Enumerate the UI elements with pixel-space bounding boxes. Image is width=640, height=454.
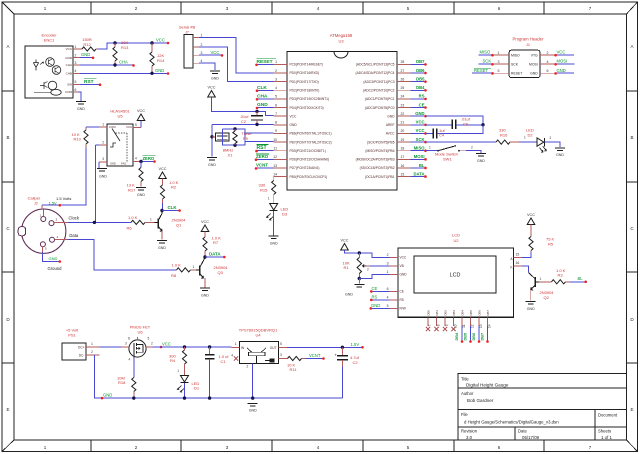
svg-text:5: 5 (498, 69, 500, 73)
svg-text:+: + (334, 352, 337, 357)
svg-text:Q2: Q2 (544, 295, 550, 300)
svg-text:U5: U5 (117, 114, 123, 119)
svg-text:DB6: DB6 (478, 310, 482, 316)
node ZERO junction (139, 161, 154, 163)
wire R16 to LED D2 (519, 141, 537, 143)
IC U5 pin2 (99, 144, 107, 146)
resistor R13 (114, 43, 116, 47)
wire J7 pin2 to U3 TXD (199, 47, 274, 82)
net label SCK at J1 pin3 (479, 63, 494, 65)
connector J2 pin 4 (50, 237, 55, 242)
svg-text:2: 2 (550, 136, 552, 140)
svg-text:1.5V: 1.5V (351, 342, 360, 347)
svg-text:VCC: VCC (137, 109, 145, 113)
IC U5 body (107, 124, 133, 166)
resistor R2 (162, 179, 164, 186)
node crystal loop bottom (233, 144, 236, 147)
svg-text:DB6: DB6 (416, 68, 425, 73)
svg-text:8: 8 (275, 121, 277, 125)
wire encoder GND pin2 (80, 57, 93, 59)
microcontroller U3 left pins 1-14 (274, 63, 287, 65)
potentiometer R1 (358, 253, 360, 258)
svg-text:GND: GND (345, 292, 353, 296)
svg-text:VCC: VCC (400, 256, 407, 260)
svg-text:Caliper: Caliper (28, 196, 41, 201)
svg-text:DATA: DATA (209, 251, 221, 256)
svg-text:VCC: VCC (527, 213, 535, 217)
svg-text:GND: GND (557, 68, 566, 73)
net labels on U3 right pins (410, 63, 425, 65)
wire LCD pin K to Q2 collector (522, 266, 529, 273)
svg-text:2: 2 (275, 69, 277, 73)
wire encoder pin6 to ground (78, 92, 81, 101)
node bypass cap junction (481, 123, 484, 126)
svg-text:SW: SW (67, 83, 72, 87)
svg-text:1: 1 (177, 369, 179, 373)
svg-text:GND: GND (387, 114, 395, 118)
regulator U4 pin1 (232, 346, 240, 348)
svg-text:1: 1 (201, 33, 203, 37)
svg-text:GND: GND (249, 409, 257, 413)
resistor R6 (131, 220, 145, 224)
svg-text:3.0: 3.0 (466, 435, 473, 440)
power VCC symbol R7 (201, 225, 209, 232)
wire U3 pin22 GND to bypass caps (426, 116, 484, 125)
svg-text:17: 17 (401, 155, 405, 159)
frame corner bevels (2, 2, 14, 14)
svg-text:RST: RST (257, 145, 267, 151)
svg-text:GND: GND (257, 102, 268, 108)
wire encoder CHB pin4 (80, 72, 168, 74)
resistor R16 (496, 140, 510, 144)
svg-text:21: 21 (401, 121, 405, 125)
svg-text:CLK: CLK (168, 205, 178, 210)
wire SW1 to ground (466, 151, 481, 153)
ground J7 pin4 (210, 70, 220, 72)
resistor R17 (140, 162, 142, 168)
svg-text:1: 1 (387, 270, 389, 274)
svg-text:GND: GND (208, 163, 216, 167)
svg-text:VCC: VCC (156, 38, 165, 43)
svg-text:BL: BL (578, 276, 584, 281)
svg-text:4: 4 (135, 157, 137, 161)
svg-text:2: 2 (247, 364, 249, 368)
svg-text:DB4: DB4 (455, 332, 459, 340)
svg-text:Document: Document (598, 413, 618, 418)
node VCC junction capacitor C2 (255, 110, 258, 113)
svg-text:6: 6 (547, 69, 549, 73)
svg-text:A: A (630, 44, 633, 49)
svg-text:8: 8 (437, 324, 441, 326)
svg-text:R17: R17 (128, 187, 136, 192)
wires LCD data pins DB4-DB7 (461, 326, 463, 342)
wire LED D3 to ground (273, 211, 275, 235)
wire R2 to CLK node (162, 203, 164, 211)
svg-text:10: 10 (273, 138, 277, 142)
node CHA junction R13 (113, 63, 116, 66)
svg-text:(SS/OC1B/PCINT2)PB2: (SS/OC1B/PCINT2)PB2 (360, 166, 395, 170)
svg-text:12: 12 (471, 324, 475, 328)
node C2 output junction (341, 346, 344, 349)
wire PS1 to Q4 PMOS (100, 346, 122, 348)
LCD U2 bottom pins (427, 317, 429, 326)
svg-text:1: 1 (429, 146, 431, 150)
node R18 ground junction (132, 396, 135, 399)
wire Clock from caliper (68, 221, 131, 223)
svg-text:Program Header: Program Header (513, 37, 545, 42)
ground R17 (136, 187, 146, 189)
svg-text:VB: VB (400, 264, 404, 268)
svg-text:R16: R16 (500, 132, 508, 137)
svg-text:4: 4 (129, 358, 131, 362)
svg-text:R/W: R/W (400, 307, 406, 311)
resistor R10 (85, 127, 87, 130)
svg-text:GND: GND (371, 303, 380, 308)
svg-text:(OC1A/PCINT1)PB1: (OC1A/PCINT1)PB1 (365, 175, 395, 179)
svg-text:Digital Height Gauge: Digital Height Gauge (466, 383, 509, 388)
node DATA junction (203, 255, 206, 258)
wire R5 to LCD pin A (522, 252, 531, 257)
svg-text:R18: R18 (118, 380, 126, 385)
svg-text:MISO: MISO (480, 50, 491, 55)
net label VCNT at U3 pin13 (256, 167, 274, 169)
svg-text:GND: GND (49, 256, 58, 261)
net label MISO at J1 pin1 (479, 54, 494, 56)
svg-text:B: B (630, 135, 633, 140)
resistor R8 (177, 268, 191, 272)
svg-text:5: 5 (280, 342, 282, 346)
LCD U2 unconnected pins 7-10 (426, 327, 430, 331)
node C1 junction (208, 345, 211, 348)
crystal X1 (212, 136, 216, 138)
ground crystal (207, 157, 217, 159)
svg-text:CLK: CLK (257, 85, 267, 91)
svg-text:1: 1 (524, 136, 526, 140)
connector PS1 body (62, 343, 86, 360)
svg-text:X1: X1 (228, 153, 234, 158)
svg-text:27: 27 (401, 69, 405, 73)
svg-text:PD4(PCINT20/XCK/T0): PD4(PCINT20/XCK/T0) (290, 106, 324, 110)
svg-text:MISO: MISO (511, 53, 520, 57)
svg-text:2: 2 (367, 267, 369, 271)
svg-text:File: File (461, 412, 468, 417)
svg-text:PD0(PCINT16/RXD): PD0(PCINT16/RXD) (290, 71, 320, 75)
ground Q3 (200, 287, 210, 289)
frame column ticks top (90, 2, 92, 14)
svg-text:C2: C2 (241, 119, 247, 124)
svg-text:2: 2 (75, 53, 77, 57)
svg-text:VCC: VCC (207, 86, 215, 90)
svg-text:R10: R10 (74, 137, 82, 142)
svg-text:R6: R6 (127, 226, 133, 231)
net label CLK at U3 pin4 (257, 89, 274, 91)
svg-text:C6: C6 (463, 121, 469, 126)
svg-text:CE: CE (400, 290, 404, 294)
svg-text:RS: RS (419, 94, 425, 99)
svg-text:GND: GND (530, 72, 538, 76)
connector J2 pin 1 (41, 217, 46, 222)
svg-text:1: 1 (498, 51, 500, 55)
svg-text:MOSI: MOSI (529, 63, 538, 67)
node U4 ground junction (251, 396, 254, 399)
svg-text:MISO: MISO (414, 146, 425, 151)
capacitor C6 (426, 124, 453, 126)
svg-text:C4: C4 (439, 133, 445, 138)
wire R1 bottom to LCD GND pin (359, 274, 389, 278)
svg-text:ENC1: ENC1 (44, 38, 55, 43)
wire U3 pin19 SCK to R16 (426, 141, 497, 143)
svg-text:VCNT: VCNT (256, 163, 268, 168)
wire encoder RST pin5 (80, 83, 100, 85)
wire Q1 emitter to ground (161, 231, 163, 240)
wire crystal to U3 pin9 XTAL1 (245, 132, 274, 134)
svg-text:Data: Data (69, 233, 79, 238)
net label CLK (162, 210, 180, 212)
svg-text:B: B (6, 135, 9, 140)
svg-text:13: 13 (273, 164, 277, 168)
svg-text:DB7: DB7 (481, 333, 485, 341)
svg-text:J2: J2 (34, 202, 38, 206)
svg-text:VCC: VCC (126, 125, 132, 129)
encoder ENC1 internal output ellipse (51, 89, 61, 95)
wire J7 pin3 VCC (199, 54, 222, 56)
svg-text:4: 4 (231, 354, 233, 358)
ground encoder pin6 (76, 101, 86, 103)
svg-text:PB7(PCINT7/XTAL2/TOSC2): PB7(PCINT7/XTAL2/TOSC2) (290, 140, 332, 144)
svg-text:3: 3 (387, 262, 389, 266)
svg-text:(ADC0/PCINT8)PC0: (ADC0/PCINT8)PC0 (365, 106, 395, 110)
svg-text:VCC: VCC (201, 220, 209, 224)
svg-text:15: 15 (401, 172, 405, 176)
svg-text:D1: D1 (194, 386, 200, 391)
IC U5 pin3 to ground (99, 161, 107, 163)
svg-text:GND: GND (81, 52, 90, 57)
svg-text:1: 1 (102, 123, 104, 127)
svg-text:DB5: DB5 (416, 76, 425, 81)
svg-text:GND: GND (137, 193, 145, 197)
svg-text:1.5 Volts: 1.5 Volts (56, 196, 71, 201)
svg-text:13: 13 (479, 324, 483, 328)
wire U5 pin1 to R10 (86, 126, 99, 128)
wire Data from caliper (68, 240, 177, 270)
svg-text:1: 1 (268, 197, 270, 201)
net label RST at U3 pin11 (257, 150, 274, 152)
svg-text:DB7: DB7 (486, 310, 490, 316)
svg-text:ZERO: ZERO (256, 154, 269, 159)
capacitor C4 (426, 132, 434, 134)
wire caliper pin5 to GND label (43, 252, 60, 262)
svg-text:1: 1 (150, 217, 152, 221)
LED D3 (270, 204, 278, 211)
power VCC symbol R5 (527, 218, 535, 225)
svg-text:MOSI: MOSI (414, 154, 425, 159)
svg-text:PD1(PCINT17/TXD): PD1(PCINT17/TXD) (290, 80, 319, 84)
connector J2 body circle (22, 209, 66, 253)
svg-text:SCK: SCK (511, 63, 519, 67)
encoder ENC1 internal switch transistor (48, 81, 57, 90)
svg-text:GND: GND (158, 246, 166, 250)
node LED D1 ground junction (183, 396, 186, 399)
svg-text:Bob Gardner: Bob Gardner (467, 398, 494, 403)
svg-text:R12: R12 (83, 42, 91, 47)
wire U4 output 1.5V rail (287, 346, 363, 348)
svg-text:ZERO: ZERO (143, 156, 155, 161)
wire U6 gate to R18 (133, 357, 135, 377)
svg-text:DB0: DB0 (427, 310, 431, 316)
svg-text:VCC: VCC (162, 341, 171, 346)
svg-text:5: 5 (387, 304, 389, 308)
power VCC symbol R1 (341, 244, 349, 251)
transistor Q2 2N3904 (534, 277, 536, 287)
svg-text:GND: GND (270, 241, 278, 245)
svg-text:R2: R2 (171, 185, 177, 190)
svg-text:SW1: SW1 (443, 156, 452, 161)
svg-text:Q3: Q3 (218, 270, 224, 275)
LCD U2 screen (414, 256, 496, 293)
svg-text:15: 15 (516, 252, 520, 256)
svg-text:RS: RS (372, 294, 378, 299)
LCD U2 pin K 16 (514, 265, 522, 267)
wire J7 pin1 to U3 RXD (199, 37, 274, 73)
net label GND at LCD (371, 307, 390, 309)
svg-text:23: 23 (401, 103, 405, 107)
svg-text:9: 9 (445, 324, 449, 326)
svg-text:PC6(PCINT14/RESET): PC6(PCINT14/RESET) (290, 63, 324, 67)
svg-text:(ADC1/PCINT9)PC1: (ADC1/PCINT9)PC1 (365, 97, 395, 101)
svg-text:2: 2 (102, 141, 104, 145)
IC U5 internals (112, 129, 120, 142)
svg-text:ATMega168: ATMega168 (330, 33, 353, 38)
svg-text:1.5V: 1.5V (49, 200, 58, 205)
svg-text:DB4: DB4 (416, 85, 425, 90)
svg-text:Clock: Clock (69, 215, 80, 220)
svg-text:GND: GND (155, 68, 164, 73)
node CHB junction R14 (150, 72, 153, 75)
wire R1 wiper to LCD VB pin (366, 265, 370, 267)
svg-text:PD2(PCINT18/INT0): PD2(PCINT18/INT0) (290, 88, 320, 92)
svg-text:R4: R4 (170, 358, 176, 363)
svg-text:DB5: DB5 (469, 310, 473, 316)
svg-text:VCC: VCC (158, 167, 166, 171)
net label BL (570, 281, 586, 283)
capacitor C2 output (341, 347, 343, 355)
svg-text:D3: D3 (282, 212, 288, 217)
ground U4 (248, 402, 258, 404)
svg-text:2: 2 (547, 51, 549, 55)
svg-text:SCK: SCK (483, 59, 492, 64)
svg-text:4: 4 (275, 86, 277, 90)
svg-text:1: 1 (91, 342, 93, 346)
net label VCNT (306, 358, 324, 360)
svg-text:GND: GND (65, 56, 73, 60)
node VCC rail junction R14 (150, 41, 153, 44)
svg-text:GND: GND (110, 162, 116, 166)
svg-text:GND: GND (103, 393, 112, 398)
svg-text:E: E (6, 407, 9, 412)
wire Q2 emitter to ground (530, 290, 532, 301)
net label RESET at U3 pin1 (257, 63, 274, 65)
svg-text:GND: GND (290, 123, 298, 127)
svg-text:4: 4 (387, 296, 389, 300)
svg-text:Q1: Q1 (176, 222, 182, 227)
svg-text:5: 5 (135, 123, 137, 127)
connector J2 pin 3 (49, 221, 54, 226)
svg-text:VCC: VCC (416, 120, 425, 125)
node crystal left junction (210, 135, 213, 138)
svg-text:(ADC3/PCINT11)PC3: (ADC3/PCINT11)PC3 (363, 80, 394, 84)
svg-text:GND: GND (211, 76, 219, 80)
svg-text:1: 1 (75, 45, 77, 49)
svg-text:14: 14 (273, 172, 277, 176)
LCD U2 left pins (390, 256, 399, 258)
power VCC symbol U5 (137, 114, 145, 121)
ground R1 (358, 279, 360, 284)
svg-text:2: 2 (387, 253, 389, 257)
connector J7 body (184, 35, 193, 69)
resistor R3 (539, 281, 552, 283)
svg-text:GND: GND (415, 111, 424, 116)
wire VCC to R1 and LCD VCC pin (345, 250, 390, 257)
svg-text:VCC: VCC (290, 114, 298, 118)
resistor R11 (288, 356, 302, 360)
net label ZERO at U3 pin12 (256, 158, 274, 160)
svg-text:MOSI: MOSI (557, 59, 568, 64)
svg-text:U4: U4 (255, 333, 261, 338)
ground SW1 (476, 153, 486, 155)
resistor R4 (184, 347, 186, 350)
node R1 top junction (358, 251, 361, 254)
svg-text:5: 5 (148, 337, 150, 341)
svg-text:3: 3 (102, 157, 104, 161)
svg-text:2: 2 (151, 342, 153, 346)
svg-text:19: 19 (401, 138, 405, 142)
ground U5 pin3 (97, 168, 107, 170)
svg-text:3: 3 (498, 60, 500, 64)
svg-text:DATA: DATA (413, 171, 424, 176)
svg-text:C2: C2 (353, 360, 359, 365)
svg-text:VCC: VCC (340, 239, 348, 243)
svg-text:VCNT: VCNT (309, 353, 321, 358)
svg-text:3: 3 (280, 353, 282, 357)
transistor Q3 2N3904 (199, 266, 201, 276)
LED D1 (181, 376, 189, 383)
svg-text:GND: GND (99, 175, 107, 179)
net label GND at J1 pin6 (555, 72, 574, 74)
svg-text:PB0(PCINT0/CLKO/ICP1): PB0(PCINT0/CLKO/ICP1) (290, 175, 328, 179)
resistor R9 (234, 129, 236, 131)
svg-text:05/17/09: 05/17/09 (522, 435, 540, 440)
svg-text:COM: COM (109, 125, 116, 129)
svg-text:RESET: RESET (511, 72, 522, 76)
frame row ticks left (2, 90, 14, 92)
svg-text:12: 12 (273, 155, 277, 159)
svg-text:4: 4 (547, 60, 549, 64)
svg-text:CHA: CHA (257, 93, 268, 99)
svg-text:LCD: LCD (452, 233, 460, 238)
microcontroller U3 body (287, 52, 397, 191)
node R1 bottom junction (358, 277, 361, 280)
svg-text:PS1: PS1 (68, 333, 76, 338)
svg-text:GND: GND (201, 293, 209, 297)
capacitor C2 bypass (256, 111, 258, 115)
svg-text:RESET: RESET (257, 59, 273, 65)
LCD U2 body (398, 248, 514, 317)
encoder ENC1 internal phototransistor B (52, 66, 61, 75)
svg-text:R5: R5 (548, 241, 554, 246)
wire crystal left leg (211, 124, 213, 156)
svg-text:PB6(PCINT6/XTAL1/TOSC1): PB6(PCINT6/XTAL1/TOSC1) (290, 132, 332, 136)
svg-text:14: 14 (488, 324, 492, 328)
